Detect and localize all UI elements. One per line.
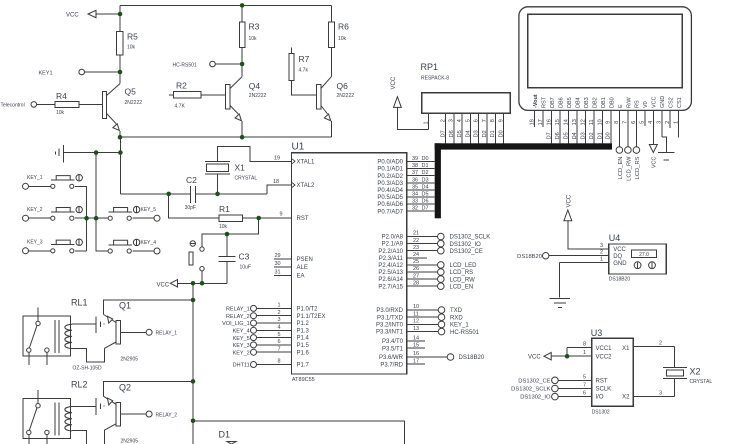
- svg-text:35: 35: [412, 184, 418, 190]
- svg-text:VCC: VCC: [613, 247, 626, 253]
- svg-text:P0.5/AD5: P0.5/AD5: [377, 195, 403, 201]
- wire Q1 base coil: [72, 323, 96, 325]
- svg-text:D6: D6: [555, 132, 561, 139]
- svg-text:30: 30: [274, 261, 280, 267]
- wire XTAL1 route: [218, 147, 292, 162]
- svg-text:P1.3: P1.3: [297, 328, 310, 334]
- svg-text:DS18B20: DS18B20: [609, 277, 631, 283]
- svg-text:P0.7/AD7: P0.7/AD7: [377, 209, 403, 215]
- svg-text:1: 1: [277, 303, 280, 309]
- svg-text:P2.4/A12: P2.4/A12: [378, 263, 403, 269]
- svg-text:-Vout: -Vout: [533, 94, 539, 108]
- svg-text:DS1302_SCLK: DS1302_SCLK: [511, 387, 550, 393]
- svg-text:P1.2: P1.2: [297, 321, 310, 327]
- wire XTAL2 route: [267, 185, 291, 194]
- pin 5 RP1: [469, 113, 471, 143]
- svg-text:C2: C2: [186, 175, 197, 185]
- svg-text:R5: R5: [127, 32, 138, 42]
- pin 6 IO U3: [552, 393, 559, 400]
- svg-text:4.7k: 4.7k: [299, 68, 309, 74]
- svg-text:DS1302_IO: DS1302_IO: [450, 242, 482, 248]
- svg-text:D7: D7: [546, 132, 552, 139]
- svg-text:CS1: CS1: [677, 97, 683, 108]
- svg-text:RESPACK-8: RESPACK-8: [421, 76, 449, 82]
- svg-text:D2: D2: [589, 132, 595, 139]
- node: [191, 281, 196, 286]
- svg-text:D1: D1: [422, 163, 429, 169]
- svg-text:X2: X2: [690, 367, 701, 377]
- pin 7 SCLK U3: [552, 385, 559, 392]
- svg-text:KEY_1: KEY_1: [27, 175, 43, 181]
- ground rail: [120, 136, 331, 138]
- transistor Q6: [317, 85, 321, 109]
- svg-text:HC-RS501: HC-RS501: [173, 63, 197, 69]
- svg-text:E: E: [618, 104, 624, 108]
- svg-text:DS18B20: DS18B20: [459, 355, 485, 361]
- reset button: [190, 241, 195, 246]
- svg-text:RELAY_1: RELAY_1: [156, 331, 178, 337]
- svg-text:DB4: DB4: [575, 97, 581, 108]
- svg-text:LCD_RS: LCD_RS: [635, 156, 641, 179]
- svg-text:P1.5: P1.5: [297, 343, 310, 349]
- svg-text:RST: RST: [542, 96, 548, 108]
- wire: [330, 47, 332, 76]
- svg-text:D1: D1: [490, 130, 496, 137]
- svg-text:7: 7: [482, 119, 488, 122]
- resistor R7: [291, 47, 293, 53]
- node: [118, 135, 123, 140]
- svg-text:R/W: R/W: [626, 97, 632, 109]
- svg-text:23: 23: [413, 245, 419, 251]
- svg-text:8: 8: [490, 119, 496, 122]
- svg-text:VCC: VCC: [66, 13, 79, 19]
- svg-text:D4: D4: [572, 132, 578, 139]
- svg-text:1: 1: [423, 121, 429, 124]
- svg-text:DS18B20: DS18B20: [517, 254, 542, 260]
- svg-text:P0.0/AD0: P0.0/AD0: [377, 160, 403, 166]
- node RST junction: [256, 216, 261, 221]
- svg-text:2: 2: [277, 310, 280, 316]
- svg-text:D7: D7: [422, 206, 429, 212]
- svg-text:4.7K: 4.7K: [175, 104, 186, 110]
- svg-text:Q6: Q6: [337, 81, 349, 91]
- svg-text:P2.5/A13: P2.5/A13: [378, 270, 403, 276]
- svg-text:P0.4/AD4: P0.4/AD4: [377, 188, 403, 194]
- wire Q1 emitter-VCC: [104, 300, 193, 315]
- svg-text:30pF: 30pF: [185, 205, 196, 211]
- wire KEY_2 row: [75, 217, 108, 219]
- svg-text:P2.0/A8: P2.0/A8: [382, 235, 404, 241]
- svg-text:XTAL1: XTAL1: [297, 159, 316, 165]
- svg-text:KEY_1: KEY_1: [450, 323, 469, 329]
- svg-text:LCD_EN: LCD_EN: [618, 157, 624, 180]
- svg-text:D3: D3: [474, 130, 480, 137]
- wire: [566, 348, 568, 357]
- pin 1 RP1: [428, 113, 430, 129]
- svg-text:P1.1/T2EX: P1.1/T2EX: [297, 314, 326, 320]
- wire: [119, 55, 121, 83]
- pin 4 RP1: [461, 113, 463, 143]
- svg-text:11: 11: [413, 311, 419, 317]
- svg-text:R1: R1: [219, 204, 230, 214]
- svg-text:14: 14: [413, 335, 419, 341]
- svg-text:CS2: CS2: [669, 97, 675, 108]
- terminal RELAY_1: [120, 331, 146, 333]
- svg-text:LCD_RW: LCD_RW: [450, 277, 476, 283]
- svg-text:P3.5/T1: P3.5/T1: [382, 346, 404, 352]
- svg-text:8: 8: [583, 342, 586, 348]
- svg-text:KEY_2: KEY_2: [27, 207, 43, 213]
- svg-text:VCC: VCC: [652, 156, 658, 168]
- svg-text:39: 39: [412, 156, 418, 162]
- svg-text:2N2222: 2N2222: [249, 93, 267, 99]
- svg-text:RL1: RL1: [71, 298, 88, 308]
- svg-text:2: 2: [600, 250, 603, 256]
- transistor Q5: [103, 92, 107, 119]
- VCC symbol LCD: [649, 145, 657, 153]
- svg-text:VCC: VCC: [528, 355, 541, 361]
- svg-text:P1.0/T2: P1.0/T2: [297, 307, 319, 313]
- svg-text:CRYSTAL: CRYSTAL: [690, 379, 713, 385]
- svg-text:Q4: Q4: [249, 81, 261, 91]
- svg-text:24: 24: [413, 252, 419, 258]
- svg-text:21: 21: [413, 231, 419, 237]
- wire: [201, 94, 226, 96]
- svg-text:10k: 10k: [338, 36, 347, 42]
- svg-text:25: 25: [413, 259, 419, 265]
- svg-text:2N2905: 2N2905: [121, 357, 139, 363]
- svg-text:AT89C55: AT89C55: [292, 377, 315, 383]
- svg-text:D0: D0: [422, 156, 429, 162]
- svg-text:VCC: VCC: [566, 194, 572, 207]
- svg-text:9: 9: [498, 119, 504, 122]
- node C3 top: [225, 232, 230, 237]
- svg-text:U1: U1: [292, 142, 305, 153]
- svg-text:R6: R6: [338, 22, 349, 32]
- svg-text:1: 1: [583, 350, 586, 356]
- svg-text:28: 28: [413, 280, 419, 286]
- terminal LCD_RW: [625, 147, 632, 154]
- svg-text:P2.1/A9: P2.1/A9: [382, 242, 404, 248]
- pin 2 DQ U4: [549, 255, 609, 257]
- svg-text:SCLK: SCLK: [596, 387, 612, 393]
- svg-text:KEY_5: KEY_5: [233, 336, 250, 342]
- svg-text:7: 7: [583, 383, 586, 389]
- svg-text:RS: RS: [635, 100, 641, 108]
- svg-text:RELAY_1: RELAY_1: [226, 307, 250, 313]
- svg-text:34: 34: [412, 192, 418, 198]
- svg-text:Q5: Q5: [125, 87, 137, 97]
- wire Q2 base coil: [72, 406, 96, 408]
- svg-text:VCC2: VCC2: [596, 354, 613, 360]
- transistor Q4: [226, 85, 230, 109]
- node VCC tap: [118, 12, 123, 17]
- svg-text:2N2222: 2N2222: [337, 93, 355, 99]
- svg-text:4: 4: [457, 119, 463, 122]
- node: [191, 379, 196, 384]
- svg-text:DS1302_CE: DS1302_CE: [518, 378, 550, 384]
- svg-text:LCD_EN: LCD_EN: [450, 284, 474, 290]
- svg-text:DB5: DB5: [567, 97, 573, 108]
- wire Q2 emitter-VCC: [104, 381, 193, 396]
- svg-text:RST: RST: [297, 216, 309, 222]
- terminal LCD_EN: [616, 147, 623, 154]
- svg-text:P1.4: P1.4: [297, 336, 310, 342]
- svg-text:5: 5: [465, 119, 471, 122]
- svg-text:7: 7: [277, 346, 280, 352]
- wire Q1 collector loop: [72, 348, 104, 362]
- wire: [241, 5, 243, 22]
- svg-text:KEY_4: KEY_4: [141, 240, 157, 246]
- svg-text:33: 33: [412, 199, 418, 205]
- svg-text:XTAL2: XTAL2: [297, 183, 316, 189]
- svg-text:RXD: RXD: [450, 315, 463, 321]
- svg-text:I/O: I/O: [596, 395, 604, 401]
- svg-text:VOI_LIG_1: VOI_LIG_1: [222, 321, 250, 327]
- svg-text:GND: GND: [660, 96, 666, 108]
- svg-text:LCD_RW: LCD_RW: [626, 156, 632, 181]
- svg-text:EA: EA: [297, 274, 305, 280]
- node: [240, 3, 245, 8]
- svg-text:DB3: DB3: [584, 97, 590, 108]
- svg-text:6: 6: [583, 391, 586, 397]
- wire: [202, 218, 259, 247]
- svg-text:36: 36: [412, 177, 418, 183]
- svg-text:10k: 10k: [249, 36, 258, 42]
- svg-text:X2: X2: [622, 395, 630, 401]
- svg-text:KEY_2: KEY_2: [233, 350, 250, 356]
- svg-text:U3: U3: [591, 328, 603, 338]
- wire: [292, 80, 317, 94]
- svg-text:KEY_3: KEY_3: [27, 240, 43, 246]
- pin 8 RP1: [494, 113, 496, 143]
- svg-text:5: 5: [583, 374, 586, 380]
- svg-text:DHT11: DHT11: [233, 363, 250, 369]
- svg-text:P3.4/T0: P3.4/T0: [382, 339, 404, 345]
- switch KEY_5: [108, 216, 112, 220]
- svg-text:D0: D0: [606, 132, 612, 139]
- svg-text:2N2222: 2N2222: [125, 100, 143, 106]
- node: [166, 192, 171, 197]
- wire: [119, 137, 121, 194]
- svg-text:ALE: ALE: [297, 265, 308, 271]
- svg-text:6: 6: [474, 119, 480, 122]
- node: [84, 216, 89, 221]
- svg-text:RELAY_2: RELAY_2: [156, 412, 178, 418]
- svg-text:RST: RST: [596, 378, 608, 384]
- node crystal bottom: [215, 192, 220, 197]
- wire: [330, 5, 332, 22]
- node: [200, 281, 205, 286]
- ground symbol: [62, 145, 64, 163]
- svg-text:LCD_LED: LCD_LED: [450, 263, 478, 269]
- U4 display 27.0: [632, 250, 657, 257]
- svg-text:27: 27: [413, 273, 419, 279]
- svg-text:6: 6: [277, 339, 280, 345]
- svg-text:D7: D7: [441, 130, 447, 137]
- svg-text:D6: D6: [422, 199, 429, 205]
- svg-text:P2.3/A11: P2.3/A11: [379, 256, 404, 262]
- rectifier D1 box: [193, 421, 405, 444]
- pin 2 RP1: [445, 113, 447, 143]
- pin 1 VCC2: [551, 355, 592, 357]
- svg-text:Telecontrol: Telecontrol: [1, 103, 25, 109]
- svg-text:D5: D5: [563, 132, 569, 139]
- svg-text:RP1: RP1: [421, 62, 439, 72]
- svg-text:10: 10: [413, 304, 419, 310]
- power rail VCC top: [120, 4, 331, 6]
- svg-text:DB6: DB6: [559, 97, 565, 108]
- svg-text:P1.6: P1.6: [297, 350, 310, 356]
- pin 1 GND U4: [560, 262, 609, 264]
- wire: [75, 250, 86, 252]
- svg-text:U4: U4: [609, 233, 621, 243]
- svg-text:3: 3: [600, 243, 603, 249]
- svg-text:16: 16: [413, 351, 419, 357]
- svg-text:19: 19: [274, 155, 280, 161]
- svg-text:8: 8: [277, 359, 280, 365]
- crystal X2: [674, 347, 676, 368]
- svg-text:DB0: DB0: [609, 97, 615, 108]
- wire: [75, 186, 86, 251]
- svg-text:10k: 10k: [219, 224, 228, 230]
- ground U4: [559, 263, 561, 298]
- pin 3 RP1: [453, 113, 455, 143]
- svg-text:P3.1/TXD: P3.1/TXD: [377, 315, 404, 321]
- pin 7 RP1: [486, 113, 488, 143]
- svg-text:17: 17: [413, 358, 419, 364]
- pin 3 X2 U3: [633, 396, 674, 398]
- wire Q2 collector: [103, 430, 105, 444]
- svg-text:D2: D2: [422, 170, 429, 176]
- svg-text:P3.2/INT0: P3.2/INT0: [376, 323, 404, 329]
- wire: [79, 103, 103, 105]
- svg-text:P0.2/AD2: P0.2/AD2: [377, 174, 403, 180]
- resistor R4: [55, 102, 79, 108]
- resistor R6: [328, 22, 334, 47]
- svg-text:D2: D2: [482, 130, 488, 137]
- svg-text:R4: R4: [56, 91, 67, 101]
- svg-text:VCC: VCC: [652, 96, 658, 108]
- svg-text:C3: C3: [239, 252, 250, 262]
- svg-text:LCD_RS: LCD_RS: [450, 270, 474, 276]
- wire keys column: [96, 153, 108, 251]
- svg-text:KEY_4: KEY_4: [233, 329, 250, 335]
- svg-text:VCC: VCC: [391, 76, 397, 89]
- pin 6 RP1: [478, 113, 480, 143]
- data bus: [435, 143, 612, 149]
- svg-text:RL2: RL2: [71, 379, 88, 389]
- node: [118, 150, 123, 155]
- svg-text:5: 5: [277, 332, 280, 338]
- svg-text:27.0: 27.0: [639, 252, 649, 258]
- svg-text:10k: 10k: [127, 45, 136, 51]
- svg-text:DQ: DQ: [613, 254, 622, 260]
- svg-text:15: 15: [413, 342, 419, 348]
- svg-text:22: 22: [413, 238, 419, 244]
- svg-text:OZ-SH-105D: OZ-SH-105D: [73, 366, 103, 372]
- svg-text:13: 13: [413, 326, 419, 332]
- svg-text:P3.6/WR: P3.6/WR: [379, 355, 404, 361]
- switch KEY_4: [108, 249, 112, 253]
- svg-text:2: 2: [441, 119, 447, 122]
- svg-text:D4: D4: [422, 184, 429, 190]
- wire crystal-C2: [217, 174, 219, 194]
- node: [240, 135, 245, 140]
- svg-text:29: 29: [274, 253, 280, 259]
- svg-text:D5: D5: [457, 130, 463, 137]
- resistor R5: [117, 32, 123, 56]
- svg-text:D3: D3: [580, 132, 586, 139]
- svg-text:38: 38: [412, 163, 418, 169]
- svg-text:31: 31: [274, 270, 280, 276]
- node: [94, 150, 99, 155]
- svg-text:GND: GND: [613, 261, 627, 267]
- svg-text:4: 4: [277, 325, 280, 331]
- crystal X1: [205, 161, 230, 163]
- svg-text:10uF: 10uF: [240, 265, 251, 271]
- svg-text:D1: D1: [597, 132, 603, 139]
- svg-text:1: 1: [600, 257, 603, 263]
- svg-text:2: 2: [659, 341, 662, 347]
- svg-text:R2: R2: [176, 81, 187, 91]
- svg-text:12: 12: [413, 319, 419, 325]
- svg-text:P2.6/A14: P2.6/A14: [378, 277, 403, 283]
- svg-text:R7: R7: [299, 54, 310, 64]
- svg-text:18: 18: [273, 179, 279, 185]
- svg-text:37: 37: [412, 170, 418, 176]
- pin 3 VCC U4: [583, 248, 609, 250]
- node: [191, 419, 196, 424]
- svg-text:DS1302_IO: DS1302_IO: [520, 395, 551, 401]
- svg-text:RELAY_2: RELAY_2: [226, 314, 250, 320]
- pin 9 RP1: [503, 113, 505, 143]
- node: [191, 298, 196, 303]
- svg-text:P3.3/INT1: P3.3/INT1: [376, 330, 404, 336]
- svg-text:Q1: Q1: [119, 301, 131, 311]
- node: [94, 216, 99, 221]
- svg-text:D0: D0: [498, 130, 504, 137]
- node: [565, 354, 570, 359]
- ground wire: [63, 152, 120, 154]
- wire: [119, 5, 121, 31]
- terminal RELAY_2: [120, 413, 146, 415]
- svg-text:D3: D3: [422, 177, 429, 183]
- svg-text:D5: D5: [422, 192, 429, 198]
- svg-text:3: 3: [277, 317, 280, 323]
- svg-text:V0: V0: [643, 101, 649, 108]
- wire coil2 bottom: [72, 431, 87, 444]
- svg-text:P3.7/RD: P3.7/RD: [380, 362, 403, 368]
- capacitor C3: [226, 234, 228, 256]
- svg-text:X1: X1: [235, 163, 246, 173]
- wire VCC rail: [192, 283, 194, 444]
- resistor R3: [239, 22, 245, 47]
- svg-text:HC-RS501: HC-RS501: [450, 330, 480, 336]
- pin 8 VCC1: [567, 347, 592, 349]
- svg-text:TXD: TXD: [450, 308, 463, 314]
- terminal LCD_RS: [633, 147, 640, 154]
- node KEY1: [118, 70, 123, 75]
- svg-text:D4: D4: [465, 130, 471, 137]
- svg-text:D6: D6: [449, 130, 455, 137]
- svg-text:P3.0/RXD: P3.0/RXD: [376, 308, 403, 314]
- ground LCD: [662, 137, 667, 153]
- svg-text:PSEN: PSEN: [297, 257, 313, 263]
- svg-text:VCC1: VCC1: [596, 346, 613, 352]
- wire: [241, 47, 243, 76]
- svg-text:R3: R3: [249, 22, 260, 32]
